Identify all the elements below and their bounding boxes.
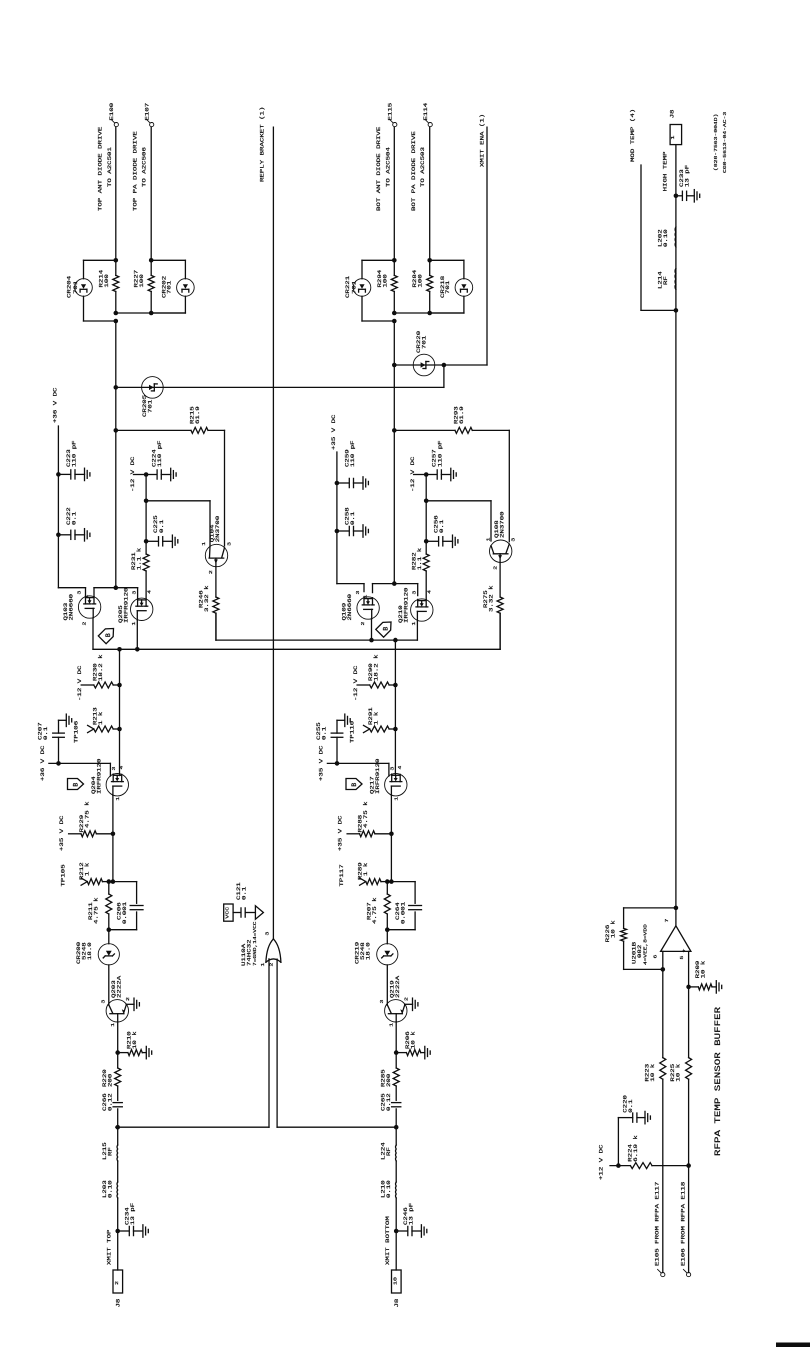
drain node junction — [392, 581, 397, 586]
svg-text:B: B — [351, 783, 358, 787]
junction MOD TEMP join — [674, 308, 679, 313]
svg-text:3: 3 — [355, 590, 361, 595]
wire non-inverting input pin5 — [688, 951, 690, 1057]
capacitor C220 0.1 to ground — [617, 1118, 619, 1166]
svg-text:13 pF: 13 pF — [130, 1203, 136, 1225]
svg-text:REPLY BRACKET (1): REPLY BRACKET (1) — [259, 107, 265, 182]
svg-text:0.1: 0.1 — [350, 512, 356, 525]
wire U110A input pin1 to top channel — [268, 959, 270, 1127]
svg-text:18.2 k: 18.2 k — [373, 654, 379, 681]
svg-text:E100: E100 — [109, 103, 115, 121]
connector J8 pin box 10 — [392, 1270, 402, 1293]
svg-text:0.1: 0.1 — [159, 520, 165, 533]
resistor R231 1.1 k — [143, 554, 149, 571]
svg-text:4=VEE,8=VDD: 4=VEE,8=VDD — [642, 924, 648, 965]
wire HIGH TEMP column — [675, 145, 677, 908]
resistor R214 100 — [115, 260, 117, 275]
svg-text:XMIT BOTTOM: XMIT BOTTOM — [385, 1216, 391, 1265]
inductor L224 RF — [395, 1127, 397, 1145]
svg-text:1: 1 — [201, 541, 207, 546]
op-amp U201B 082 — [675, 908, 677, 926]
resistor R227 100 — [150, 260, 152, 275]
transistor Q109 2N6660 — [357, 597, 379, 619]
wire column R290 to R291 — [394, 685, 396, 729]
svg-text:RF: RF — [107, 1147, 113, 1156]
inductor L214 RF — [674, 269, 677, 290]
svg-text:TO A2C503: TO A2C503 — [420, 147, 426, 187]
svg-text:E107: E107 — [144, 103, 150, 121]
svg-text:1: 1 — [393, 796, 399, 801]
resistor R206 10 k to ground — [394, 1050, 399, 1055]
svg-text:701: 701 — [73, 281, 79, 294]
diode CR205 701 on horizontal branch — [114, 385, 119, 390]
svg-text:100: 100 — [417, 274, 423, 287]
svg-text:0.1: 0.1 — [439, 520, 445, 533]
svg-text:+36 V DC: +36 V DC — [52, 387, 58, 423]
svg-text:1: 1 — [131, 621, 137, 626]
svg-text:TP117: TP117 — [339, 864, 345, 886]
svg-text:200: 200 — [107, 1074, 113, 1087]
supply rail wire — [336, 452, 338, 584]
svg-text:18.0: 18.0 — [365, 942, 371, 960]
power flag VCC box — [224, 904, 233, 921]
capacitor C207 0.1 to ground — [56, 761, 61, 766]
svg-text:IRFR9120: IRFR9120 — [123, 587, 129, 623]
svg-text:110 pF: 110 pF — [157, 440, 163, 467]
svg-text:-: - — [659, 948, 665, 952]
resistor R212 1 k with test point TP105 — [111, 879, 116, 884]
svg-text:IRFR9120: IRFR9120 — [403, 587, 409, 623]
node junction E100/CR loop top — [114, 258, 119, 263]
svg-text:3.32 k: 3.32 k — [204, 585, 210, 612]
inductor L203 0.10 — [117, 1161, 119, 1182]
svg-text:4: 4 — [397, 765, 403, 770]
transistor Q104 2N3700 — [205, 544, 227, 566]
svg-text:XMIT TOP: XMIT TOP — [106, 1229, 112, 1265]
source rail with junction dots — [92, 618, 94, 649]
svg-text:3: 3 — [264, 931, 270, 936]
svg-text:1: 1 — [362, 594, 368, 599]
wire collector drop Q104 — [224, 430, 226, 546]
terminal E107 — [150, 123, 154, 127]
svg-text:2: 2 — [403, 997, 409, 1001]
svg-text:B: B — [105, 633, 112, 637]
svg-text:RFPA TEMP SENSOR BUFFER: RFPA TEMP SENSOR BUFFER — [713, 1007, 722, 1156]
svg-text:2: 2 — [125, 997, 131, 1001]
wire bias column — [425, 475, 427, 555]
wire column to P-fet follower — [394, 729, 396, 776]
junction R215 branch — [114, 428, 119, 433]
svg-text:2: 2 — [492, 566, 498, 570]
svg-text:13 pF: 13 pF — [408, 1203, 414, 1225]
resistor R207 4.75 k — [386, 882, 388, 894]
svg-text:MOD TEMP (4): MOD TEMP (4) — [630, 109, 636, 162]
resistor R291 1 k with test point TP110 — [393, 727, 398, 732]
svg-text:3.32 k: 3.32 k — [488, 585, 494, 612]
capacitor C257 110 pF with ground — [424, 472, 429, 477]
wire zener to Q203 collector — [108, 965, 110, 1005]
svg-text:1: 1 — [115, 796, 121, 801]
junction dots on column — [392, 311, 397, 316]
svg-text:10 k: 10 k — [675, 1064, 681, 1082]
inductor L215 RF — [117, 1127, 119, 1145]
capacitor C233 13 pF to ground — [674, 194, 679, 199]
svg-text:110 pF: 110 pF — [350, 440, 356, 467]
capacitor C121 0.1 VCC bypass — [233, 912, 241, 914]
svg-text:2N3700: 2N3700 — [499, 511, 505, 538]
wire source column down — [112, 795, 114, 833]
wire E114 column upper — [429, 127, 431, 260]
svg-text:4.75 k: 4.75 k — [84, 801, 90, 828]
svg-text:18.2 k: 18.2 k — [98, 654, 104, 681]
resistor R215 61.9 — [116, 429, 191, 431]
svg-text:701: 701 — [445, 281, 451, 294]
svg-text:1 k: 1 k — [363, 863, 369, 876]
svg-text:10: 10 — [392, 1276, 398, 1285]
wire supply rail to pin3 of N-fet — [58, 587, 85, 589]
svg-text:2N3700: 2N3700 — [215, 516, 221, 543]
transistor Q217 IRFR9120 follower — [385, 774, 407, 796]
svg-text:-12 V DC: -12 V DC — [77, 665, 83, 701]
svg-text:3: 3 — [226, 541, 232, 546]
svg-text:E114: E114 — [423, 103, 429, 121]
svg-text:4.75 k: 4.75 k — [363, 801, 369, 828]
svg-text:3: 3 — [379, 999, 385, 1004]
svg-text:2222A: 2222A — [395, 976, 401, 998]
diode CR218 701 parallel loop — [430, 259, 464, 261]
svg-text:0.10: 0.10 — [663, 229, 669, 247]
feedback resistor R226 10 k — [624, 907, 676, 909]
svg-text:HIGH TEMP: HIGH TEMP — [662, 151, 668, 191]
capacitor C259 110 pF with ground — [335, 481, 340, 486]
svg-text:0.1: 0.1 — [628, 1099, 634, 1112]
svg-text:TOP PA DIODE DRIVE: TOP PA DIODE DRIVE — [132, 131, 138, 211]
stub wire to pin3 — [49, 762, 111, 764]
svg-text:200: 200 — [386, 1074, 392, 1087]
diode CR202 701 parallel loop — [151, 259, 185, 261]
svg-text:E106 FROM RFPA E118: E106 FROM RFPA E118 — [680, 1182, 686, 1266]
svg-text:TO A2C504: TO A2C504 — [385, 147, 391, 187]
resistor R223 10 k — [660, 1058, 666, 1080]
svg-text:0.10: 0.10 — [107, 1180, 113, 1198]
svg-text:110 pF: 110 pF — [71, 440, 77, 467]
wire E100 column to drain node — [115, 321, 117, 588]
svg-text:2: 2 — [360, 622, 366, 626]
svg-text:+35 V DC: +35 V DC — [331, 414, 337, 450]
junction + wire to Q104 base — [144, 499, 149, 504]
svg-text:1: 1 — [411, 621, 417, 626]
terminal E105 FROM RFPA E117 — [661, 1273, 665, 1277]
wire zener to Q219 collector — [386, 965, 388, 1005]
svg-text:1 k: 1 k — [373, 712, 379, 725]
transistor Q204 IRFR9120 follower — [106, 774, 128, 796]
flag B net — [376, 618, 395, 637]
svg-text:0.1: 0.1 — [321, 727, 327, 740]
svg-text:TO A2C501: TO A2C501 — [107, 147, 113, 187]
svg-text:1 k: 1 k — [98, 712, 104, 725]
svg-text:110 pF: 110 pF — [437, 440, 443, 467]
capacitor C264 0.001 parallel loop — [391, 881, 415, 883]
wire collector drop Q108 — [508, 430, 510, 541]
transistor Q108 2N3700 — [490, 540, 512, 562]
junction op amp output — [674, 906, 679, 911]
svg-text:1.1 k: 1.1 k — [136, 548, 142, 570]
wire supply rail to pin3 of N-fet — [337, 583, 364, 585]
resistor R289 1 k with test point TP117 — [389, 879, 394, 884]
svg-text:18.0: 18.0 — [87, 942, 93, 960]
svg-text:TP106: TP106 — [73, 721, 79, 743]
svg-text:10 k: 10 k — [650, 1064, 656, 1082]
svg-text:E115: E115 — [387, 103, 393, 121]
wire bias column — [145, 475, 147, 555]
node junction E115/CR loop top — [392, 258, 397, 263]
junction + wire to Q108 base — [424, 499, 429, 504]
wire column to P-fet follower — [119, 729, 121, 776]
OR gate U110A 74HC32 — [266, 959, 281, 962]
wire base to R210 junction — [117, 1022, 119, 1053]
drain node junction — [114, 585, 119, 590]
svg-text:RF: RF — [386, 1147, 392, 1156]
svg-text:61.9: 61.9 — [195, 406, 201, 424]
svg-text:0.1: 0.1 — [43, 727, 49, 740]
wire reply bracket from U110A output — [272, 127, 274, 939]
capacitor C224 110 pF with ground — [144, 472, 149, 477]
wire emitter resistor to opposite source rail — [499, 613, 501, 649]
svg-text:BOT PA DIODE DRIVE: BOT PA DIODE DRIVE — [411, 131, 417, 211]
capacitor C223 110 pF with ground — [56, 472, 61, 477]
capacitor C206 0.001 parallel loop — [113, 881, 137, 883]
resistor R293 61.9 — [394, 429, 455, 431]
svg-text:B: B — [383, 627, 390, 631]
wire jog XMIT ENA to CR205 line — [443, 365, 445, 387]
junction dot R block bottom — [427, 311, 432, 316]
terminal E106 FROM RFPA E118 — [687, 1273, 691, 1277]
svg-text:10 k: 10 k — [132, 1031, 138, 1049]
wire E115 column upper — [393, 127, 395, 260]
svg-text:0.12: 0.12 — [107, 1093, 113, 1111]
svg-text:0.10: 0.10 — [386, 1180, 392, 1198]
svg-text:2: 2 — [81, 622, 87, 626]
svg-text:3: 3 — [389, 766, 395, 771]
inductor L202 0.10 — [674, 227, 677, 247]
wire E115 column to drain node — [393, 321, 395, 584]
wire emitter resistor to opposite source rail — [215, 613, 217, 640]
transistor Q103 2N6660 — [78, 596, 100, 618]
transistor Q205 IRFR9120 — [131, 598, 153, 620]
svg-text:1 k: 1 k — [84, 863, 90, 876]
capacitor C255 0.1 to ground — [335, 761, 340, 766]
terminal E100 — [114, 123, 118, 127]
svg-text:+35 V DC: +35 V DC — [337, 815, 343, 851]
connector J8 pin box 2 — [113, 1270, 123, 1293]
svg-text:1: 1 — [388, 1022, 394, 1027]
capacitor C266 0.12 series — [113, 1102, 122, 1104]
diode CR220 701 on XMIT ENA branch — [392, 363, 397, 368]
svg-text:J8: J8 — [115, 1299, 121, 1308]
svg-text:2: 2 — [208, 570, 214, 574]
svg-text:IRFR9120: IRFR9120 — [96, 758, 102, 794]
supply rail wire — [57, 426, 59, 588]
wire base to R206 junction — [395, 1022, 397, 1053]
resistor R211 4.75 k — [108, 882, 110, 894]
svg-text:1: 1 — [485, 537, 491, 542]
svg-text:701: 701 — [351, 281, 357, 294]
inductor L210 0.10 — [395, 1161, 397, 1182]
svg-text:5: 5 — [679, 955, 685, 960]
svg-text:0.12: 0.12 — [386, 1093, 392, 1111]
svg-text:TP110: TP110 — [349, 721, 355, 743]
svg-text:1.1 k: 1.1 k — [417, 548, 423, 570]
stub wire to pin3 — [327, 762, 389, 764]
svg-text:+12 V DC: +12 V DC — [598, 1144, 604, 1180]
junction to 74HC32 drive — [115, 1125, 120, 1130]
svg-text:10 k: 10 k — [700, 961, 706, 979]
flag B net follower — [346, 779, 362, 790]
capacitor C265 0.12 series — [392, 1102, 401, 1104]
resistor R275 3.32 k emitter — [499, 562, 501, 597]
svg-text:2N6660: 2N6660 — [347, 594, 353, 621]
wire rail joining both diode blocks — [394, 312, 464, 314]
svg-text:2N6660: 2N6660 — [68, 594, 74, 621]
svg-text:2222A: 2222A — [116, 976, 122, 998]
resistor R220 200 — [117, 1053, 119, 1068]
svg-text:1: 1 — [670, 135, 676, 140]
zener CR200 5248 18.0 — [107, 927, 112, 932]
svg-text:1: 1 — [110, 1022, 116, 1027]
resistor R285 200 — [395, 1053, 397, 1068]
svg-text:CG0-5613-04-AC-3: CG0-5613-04-AC-3 — [722, 111, 728, 173]
svg-text:7: 7 — [664, 919, 670, 923]
resistor R282 1.1 k — [423, 554, 429, 571]
svg-text:701: 701 — [147, 400, 153, 413]
svg-text:61.9: 61.9 — [459, 406, 465, 424]
svg-text:0.001: 0.001 — [400, 902, 406, 924]
resistor R230 18.2 k to -12 V DC — [117, 683, 122, 688]
capacitor C258 0.1 with ground — [335, 529, 340, 534]
ground triangle for C121 — [255, 906, 263, 919]
wire column R230 to R213 — [119, 685, 121, 729]
svg-text:+35 V DC: +35 V DC — [318, 745, 324, 781]
wire inverting input pin6 — [662, 951, 664, 1057]
svg-text:4: 4 — [146, 589, 152, 594]
wire rail joining both diode blocks — [116, 312, 186, 314]
source rail with junction dots — [416, 622, 418, 641]
resistor R209 10 k to ground — [686, 985, 691, 990]
svg-text:3: 3 — [100, 999, 106, 1004]
svg-text:6.19 k: 6.19 k — [633, 1135, 639, 1162]
svg-text:1: 1 — [260, 962, 266, 967]
resistor R284 100 — [429, 260, 431, 275]
resistor R294 100 — [393, 260, 395, 275]
svg-text:100: 100 — [139, 274, 145, 287]
wire E107 column upper — [150, 127, 152, 260]
resistor R290 18.2 k to -12 V DC — [393, 683, 398, 688]
svg-text:+: + — [681, 948, 687, 953]
svg-text:2: 2 — [114, 1280, 120, 1285]
resistor R225 10 k — [686, 1058, 692, 1080]
svg-text:4.75 k: 4.75 k — [372, 897, 378, 924]
terminal E115 — [393, 123, 397, 127]
resistor R210 10 k to ground — [115, 1050, 120, 1055]
wire to R212 junction — [112, 834, 114, 882]
svg-text:+36 V DC: +36 V DC — [40, 745, 46, 781]
wire source column down — [390, 795, 392, 833]
junction dot R block bottom — [149, 311, 154, 316]
diode CR221 701 parallel loop — [362, 259, 394, 261]
svg-text:13 pF: 13 pF — [684, 165, 690, 187]
transistor Q203 2222A with grounded emitter — [106, 1000, 128, 1022]
wire R282 to Q210 gate pin4 — [425, 571, 427, 600]
svg-text:XMIT ENA (1): XMIT ENA (1) — [479, 114, 485, 167]
svg-text:B: B — [73, 783, 80, 787]
svg-text:J8: J8 — [394, 1299, 400, 1308]
wire node to fet top pins — [94, 587, 116, 589]
svg-text:3: 3 — [111, 766, 117, 771]
wire E100 column upper — [115, 127, 117, 260]
terminal E114 — [428, 123, 432, 127]
wire U110A input pin2 to bottom channel — [276, 959, 278, 1127]
svg-text:100: 100 — [104, 274, 110, 287]
node junction E107 — [149, 258, 154, 263]
capacitor C256 0.1 with ground — [424, 539, 429, 544]
junction dots on column — [114, 311, 119, 316]
wire node to fet top pins — [373, 583, 395, 585]
capacitor C234 13 pF to ground — [117, 1198, 119, 1270]
svg-text:RF: RF — [663, 276, 669, 285]
svg-text:4: 4 — [426, 589, 432, 594]
svg-text:7=GND,14=VCC: 7=GND,14=VCC — [252, 921, 258, 966]
svg-text:0.1: 0.1 — [71, 512, 77, 525]
svg-text:0.1: 0.1 — [241, 887, 247, 900]
flag B net follower — [68, 779, 84, 790]
capacitor C222 0.1 with ground — [56, 533, 61, 538]
page corner mark — [776, 1343, 810, 1347]
svg-text:J8: J8 — [669, 109, 675, 118]
svg-text:CR221: CR221 — [345, 276, 351, 298]
diode CR204 701 parallel loop — [84, 259, 116, 261]
svg-text:0.001: 0.001 — [122, 902, 128, 924]
resistor R213 1 k with test point TP106 — [117, 727, 122, 732]
svg-text:3: 3 — [76, 590, 82, 595]
svg-text:IRFR9120: IRFR9120 — [375, 758, 381, 794]
capacitor C225 0.1 with ground — [144, 539, 149, 544]
svg-text:3: 3 — [411, 590, 417, 595]
zener CR219 5248 18.0 — [385, 927, 390, 932]
svg-text:TOP ANT DIODE DRIVE: TOP ANT DIODE DRIVE — [97, 127, 103, 211]
junction R293 branch — [392, 428, 397, 433]
node junction E114 — [427, 258, 432, 263]
svg-text:CR204: CR204 — [66, 276, 72, 298]
transistor Q210 IRFR9120 — [411, 599, 433, 621]
svg-text:10 k: 10 k — [410, 1031, 416, 1049]
flag B net — [98, 625, 117, 644]
svg-text:701: 701 — [421, 336, 427, 349]
svg-text:10 k: 10 k — [610, 920, 616, 938]
wire R231 to Q205 gate pin4 — [145, 571, 147, 600]
junction to 74HC32 drive — [394, 1125, 399, 1130]
svg-text:3: 3 — [131, 590, 137, 595]
transistor Q219 2222A with grounded emitter — [385, 1000, 407, 1022]
capacitor C246 13 pF to ground — [395, 1198, 397, 1270]
wire to R212 junction — [390, 834, 392, 882]
svg-text:TP105: TP105 — [60, 864, 66, 886]
svg-text:VCC: VCC — [224, 906, 230, 918]
svg-text:100: 100 — [382, 274, 388, 287]
svg-text:701: 701 — [166, 281, 172, 294]
svg-text:3: 3 — [510, 537, 516, 542]
svg-text:4.75 k: 4.75 k — [93, 897, 99, 924]
svg-text:E105 FROM RFPA E117: E105 FROM RFPA E117 — [654, 1182, 660, 1266]
